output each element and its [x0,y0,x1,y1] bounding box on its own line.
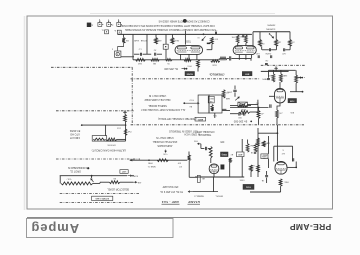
cap C19 [265,175,268,177]
cap C3 [214,32,216,35]
tube V3 7199 [275,89,286,103]
cap C18 [292,158,294,161]
resistor R5 [236,35,239,43]
svg-text:1M: 1M [126,39,129,41]
label box NORMAL [185,72,195,76]
tube V2 pins [238,55,240,60]
wire y=192 [250,191,281,193]
schematic border frame [27,16,333,209]
switch box left [198,95,209,113]
svg-text:NOTE WHEN USED AS: NOTE WHEN USED AS [158,19,184,22]
svg-text:CHANNEL WITH: CHANNEL WITH [195,130,214,133]
svg-text:HAFS: HAFS [262,77,268,80]
wire x=268.5 segs [268,136,270,154]
wire cap row [134,53,139,55]
switch box right [209,95,222,113]
wire row to V2 [198,59,219,61]
wire cathode row [133,59,198,61]
resistor R35 [257,111,260,119]
resistor R29 [229,158,231,163]
wire drop A [132,34,134,59]
wire into V3 left [269,95,275,97]
pot P2 wiper [270,35,273,39]
resistor R12c [211,60,220,62]
cap C8 [270,55,272,58]
wire x=257.9 [257,100,259,115]
resistor R28 [262,141,265,147]
jack J5 [105,30,109,34]
resistor R21 [124,114,127,122]
cap C7 [257,55,259,58]
resistor R30 [250,165,253,171]
scan page top edge [90,13,275,15]
svg-text:MNB CL: MNB CL [147,165,156,167]
wire tone row [131,159,187,161]
cap C5 [268,48,270,51]
resistor R22 [107,138,117,141]
resistor R18 [239,111,250,114]
dashed separator D3 [131,78,260,80]
tube V4 pins [213,174,215,177]
svg-text:CONNECT AS SHOWN: CONNECT AS SHOWN [184,19,210,22]
resistor R32 [257,165,260,172]
header rule [27,217,333,219]
svg-text:1M: 1M [278,40,281,42]
wire x=258 branch [257,128,259,177]
electrolytic dark [221,165,224,170]
wire rail3 [269,69,296,71]
wire drops left [105,125,107,136]
wire row y=177 [195,176,244,178]
tube V4 6SL7 [209,164,219,174]
resistor R16 [280,74,283,82]
connector arrow SOH [128,175,132,177]
resistor R11 [151,58,159,61]
wire mid row [222,110,230,112]
switch box resistor [211,105,213,112]
cap C16 [205,147,207,150]
wire x=242.2 [241,139,243,152]
jack J4 [117,22,121,26]
svg-text:TREMOLO: TREMOLO [199,133,211,136]
dashed separator D4 [261,64,306,66]
wire drop B [146,34,148,54]
cap C15a [238,112,240,115]
wire box right stub [222,108,226,110]
wire J7 to resistor R1 [118,43,124,51]
svg-text:(ULTRA-HIGH GAIN CIRCUIT): (ULTRA-HIGH GAIN CIRCUIT) [92,148,127,151]
svg-text:UTC-HO: UTC-HO [70,132,80,135]
svg-text:330MFD: 330MFD [267,24,276,26]
cap C1 coupling [139,53,141,56]
svg-text:SELECTOR LEVEL: SELECTOR LEVEL [107,188,130,191]
junction dot tone [148,159,150,161]
resistor R12b [166,59,172,61]
svg-text:HHB: HHB [147,162,152,164]
jack J3 [107,23,111,27]
wire drop to comp [188,161,190,178]
reverb input arrow [183,102,185,104]
resistor R27 [254,143,257,152]
resistor R19 [222,90,225,98]
jack J6 [117,30,121,34]
dashed separator D1 [51,66,134,68]
resistor R26 [246,144,249,153]
connector arrow left [131,159,134,161]
wire left drop [59,176,61,184]
switch box label [208,96,214,103]
resistor R20 [238,104,247,107]
svg-text:BVS: BVS [267,74,272,76]
svg-text:CIRCUIT: CIRCUIT [69,136,80,139]
svg-text:(TREMOLO): (TREMOLO) [210,72,225,76]
cap C11 [267,78,270,80]
svg-text:Ampeg: Ampeg [31,221,80,236]
svg-text:BT BA: BT BA [140,39,147,42]
wire caps row3 [230,113,238,115]
svg-text:HO: HO [255,102,258,104]
tube V2 7025 [233,46,256,55]
resistor R6 [245,35,248,43]
wire B+ rail2 [253,31,290,33]
svg-text:CONDENSER IN: CONDENSER IN [68,166,87,169]
svg-text:NOT USED IN TREMOLO: NOT USED IN TREMOLO [169,129,198,132]
cap C6 [283,48,285,51]
svg-text:B00VLL: B00VLL [214,195,223,197]
bypass box resistor [93,138,105,140]
wire V2 top [237,43,239,46]
svg-text:ACD: ACD [238,153,243,156]
left page edge shading [24,16,26,210]
svg-text:DELUXE 2 AMPLIFIER: DELUXE 2 AMPLIFIER [144,98,170,101]
svg-text:BY-PASS: BY-PASS [69,129,80,132]
resistor R33 [279,179,282,186]
svg-text:VOL!: VOL! [66,177,71,179]
resistor R9 [289,40,292,47]
svg-text:GROT CL: GROT CL [69,169,81,172]
dashed separator V1 vertical [131,67,133,125]
svg-text:NORM: NORM [186,72,192,74]
wire node 133 [258,132,277,134]
svg-text:B1 005: B1 005 [261,157,268,159]
wire J7 output [121,56,134,58]
cap C4 [242,35,244,38]
resistor R21b [124,129,127,136]
wire bottom left node [106,140,126,142]
wire V3 pins down [258,108,260,111]
wire R17 tap [296,77,301,79]
resistor R23 [157,159,168,162]
svg-text:7025: 7025 [185,39,191,41]
pot P3 [235,97,239,101]
label box BRIGHT [242,72,252,76]
svg-text:YOU: YOU [163,152,168,154]
svg-text:AMP - 5A2: AMP - 5A2 [162,200,180,204]
svg-text:BBOS: BBOS [208,97,214,99]
note condenser dot [87,167,89,169]
shielded cap box [163,44,168,49]
svg-text:YOU: YOU [189,98,194,100]
dashed separator D8 [60,202,133,204]
pot P1 wiper [203,33,205,35]
cap C15b [243,112,245,115]
svg-text:TANAB+O: TANAB+O [194,195,204,198]
resistor R24 [188,155,191,161]
svg-text:GAB: GAB [225,97,230,100]
resistor R7 [259,40,262,47]
tube V5 [275,162,287,175]
pot P5 wiper [91,179,94,182]
wire row y=191.6 [213,177,215,192]
svg-text:MULTIPLE CHANNEL: MULTIPLE CHANNEL [152,140,177,143]
cap C12 [233,89,236,91]
resistor R8 [275,40,278,47]
ground G1 [275,67,277,71]
svg-text:USED ONLY IN: USED ONLY IN [149,94,167,97]
resistor R34 [109,181,120,184]
resistor R31 [257,138,260,146]
dashed separator D7 [60,192,140,194]
resistor R13 [197,60,200,68]
resistor R12 [184,59,191,62]
label box 2-line [261,154,268,159]
svg-text:AMPLIFIERS: AMPLIFIERS [157,144,172,147]
svg-text:STAY PREAMP AND CONNECT TREMOL: STAY PREAMP AND CONNECT TREMOLO CHANNEL … [125,28,216,31]
svg-text:SOH: SOH [133,174,138,176]
jack J1 (shorted) [87,23,91,27]
label box mid-left [195,117,206,121]
wire V5 right [287,166,296,168]
resistor R25 [209,147,212,159]
svg-text:SIMPLE MODEL: SIMPLE MODEL [148,104,167,107]
wire J6 to bus [118,33,120,35]
wire pot to R34 [93,182,100,184]
label box 7025 dark [243,184,254,189]
tube V1 7025 [175,46,203,55]
svg-text:FOR EASY CHANNEL WITH TREMOLO: FOR EASY CHANNEL WITH TREMOLO REMOVE LEA… [117,24,214,27]
Ampeg logo box [27,219,174,238]
wire gnd row [261,70,289,72]
wire x=229.7 [229,158,231,177]
note dot [183,19,187,23]
cap C10 [229,56,231,60]
svg-text:FREQ: FREQ [221,153,227,155]
wire box bottom stub [214,113,216,118]
svg-text:USED ONLY IN: USED ONLY IN [156,136,174,139]
wire drop C [165,34,167,44]
cap C15c [269,104,271,108]
svg-text:1AO: 1AO [250,144,254,147]
wire x=277.4 [276,125,278,161]
svg-text:(PRINTED CHANNEL OPTIONAL): (PRINTED CHANNEL OPTIONAL) [158,117,197,120]
bypass box [92,136,107,142]
cap C9 [265,62,268,64]
wire V3 bottom jog [277,103,280,110]
label box 7199 [288,99,297,103]
wire mid node [230,107,269,109]
ground G2 [124,112,126,114]
dashed separator D2 [56,110,134,112]
svg-text:E5AMP: E5AMP [188,200,200,204]
svg-text:25V WVA AMP: 25V WVA AMP [162,185,178,188]
label box ACD [237,152,245,157]
resistor R14 [219,57,227,60]
wire plate node [290,91,303,93]
wire bus1 [118,33,252,35]
wire left node [82,124,126,126]
resistor R10 [136,58,146,61]
dashed separator D5 [131,124,304,126]
pot P5 long [61,182,93,185]
cap C17 [254,151,256,153]
resistor R36 [276,110,279,118]
svg-text:AMPL: AMPL [197,118,203,121]
tube V1 pins [180,54,182,59]
wire V1 grid right [207,49,212,51]
svg-text:SCREEN: SCREEN [266,27,276,29]
svg-text:PRE-AMP: PRE-AMP [290,222,332,232]
connector arrow TH4 [198,143,201,145]
pot P4 wiper [165,150,167,153]
resistor R15 [272,74,275,82]
wire volume row [60,175,127,177]
output transformer box [273,146,275,161]
svg-text:B+ 255-300: B+ 255-300 [164,67,178,71]
jack J7 bright input [115,51,121,57]
svg-text:B1B: B1B [212,63,217,65]
resistor R1 470K [122,38,125,43]
svg-text:B+ 250-300: B+ 250-300 [233,120,247,124]
connector arrow HIA [120,181,133,183]
cap C2 coupling [154,53,156,56]
transducer box with X [238,102,248,107]
resistor R3 [171,38,174,44]
svg-text:7025: 7025 [245,186,251,188]
resistor R17 [295,75,298,83]
resistor R2 [155,38,158,44]
wire drop V1 plate [184,34,186,44]
svg-text:TO B+ 157-250 9 CL: TO B+ 157-250 9 CL [159,190,183,193]
svg-text:68K: 68K [157,39,161,41]
svg-text:2M: 2M [261,42,264,44]
svg-text:B TWR 2 JAO: B TWR 2 JAO [95,197,109,200]
dashed separator D6 [56,158,140,160]
jack J2 [98,23,102,27]
svg-text:B1A: B1A [250,164,254,167]
label box right [120,170,128,174]
svg-text:1MEG: 1MEG [281,74,287,76]
resistor R4 [211,37,214,44]
wire caps row2 [261,46,263,50]
svg-text:ALL CONTROLS OMIT VOLUME ONLY: ALL CONTROLS OMIT VOLUME ONLY [140,108,185,111]
footswitch label box [92,196,113,200]
component right [197,175,200,182]
label box FREQ dark [221,152,229,157]
svg-text:BH 0005: BH 0005 [107,143,116,145]
